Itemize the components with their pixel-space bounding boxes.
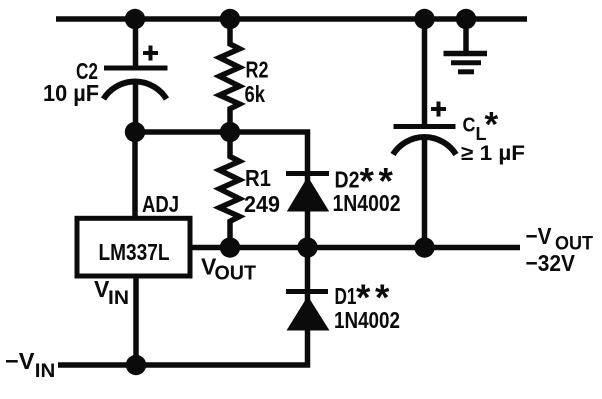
wire ground stub	[463, 19, 469, 51]
resistor R1	[220, 132, 240, 248]
svg-text:IN: IN	[108, 288, 129, 309]
wire C2 top stub	[133, 19, 139, 68]
regulator U1 LM337L box	[77, 218, 190, 276]
svg-text:ADJ: ADJ	[142, 191, 179, 217]
ground	[444, 54, 488, 72]
svg-text:1N4002: 1N4002	[333, 190, 401, 216]
diode D1	[286, 292, 330, 331]
wire top rail	[56, 16, 527, 22]
svg-text:≥ 1 µF: ≥ 1 µF	[461, 142, 525, 165]
wire output rail	[192, 245, 520, 251]
svg-text:LM337L: LM337L	[99, 239, 170, 265]
svg-text:1N4002: 1N4002	[334, 307, 400, 333]
wire C2 bottom stub	[133, 82, 139, 132]
wire bottom rail and D1 branch	[58, 248, 308, 366]
node junction dots	[125, 9, 476, 375]
svg-text:C: C	[463, 115, 476, 137]
svg-text:OUT: OUT	[215, 263, 257, 285]
svg-text:249: 249	[244, 191, 280, 217]
wire ADJ pin	[132, 132, 138, 216]
svg-text:IN: IN	[35, 361, 56, 382]
svg-text:−32V: −32V	[526, 250, 576, 276]
diode D2	[286, 174, 329, 212]
wire CL top stub	[422, 19, 428, 126]
resistor R2	[220, 19, 240, 132]
svg-text:D1: D1	[335, 283, 357, 309]
svg-text:−V: −V	[526, 223, 553, 249]
wire ADJ rail and D2 branch	[135, 132, 308, 248]
svg-text:R2: R2	[246, 57, 269, 83]
capacitor C2	[104, 46, 168, 100]
wire VIN pin	[133, 278, 139, 365]
svg-text:10 µF: 10 µF	[43, 80, 99, 106]
svg-text:−V: −V	[5, 348, 35, 374]
svg-text:6k: 6k	[245, 81, 266, 107]
svg-text:*: *	[485, 106, 499, 145]
wire CL bottom stub	[422, 139, 428, 248]
svg-text:R1: R1	[245, 165, 271, 191]
capacitor CL	[393, 102, 456, 155]
svg-text:D2: D2	[335, 167, 360, 193]
